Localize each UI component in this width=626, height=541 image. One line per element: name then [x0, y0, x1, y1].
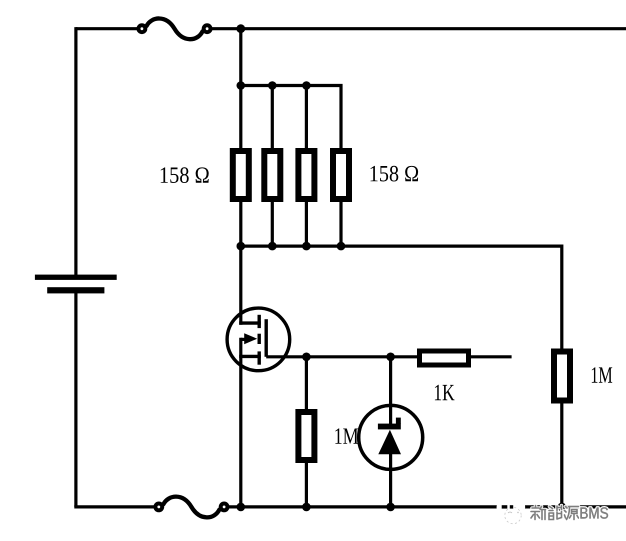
transistor Q1 channel dash bottom	[258, 351, 261, 364]
fuse F1 left terminal	[137, 23, 148, 34]
fuse F1 right terminal	[202, 23, 213, 34]
battery BT1 plate short	[47, 287, 104, 293]
label 1M left	[335, 428, 358, 443]
node bottom wire 4	[558, 503, 567, 512]
node bottom bus 2	[268, 242, 277, 251]
transistor Q1 gate bar	[265, 319, 268, 357]
wire left rail lower	[74, 290, 77, 507]
resistor R7 1M right	[554, 352, 570, 401]
node top	[236, 24, 245, 33]
diode D1 anode triangle	[378, 430, 401, 455]
wire drain vertical	[239, 246, 242, 325]
transistor Q1 body arrow	[244, 333, 257, 344]
watermark text halo	[531, 506, 579, 520]
node bottom bus 4	[337, 242, 346, 251]
wire R3 bottom lead	[305, 199, 308, 246]
wire main vertical upper	[239, 29, 242, 151]
node bottom bus 3	[302, 242, 311, 251]
battery BT1 plate long	[35, 275, 117, 280]
node bottom wire 3	[386, 503, 395, 512]
wire left 1M bottom lead	[305, 461, 308, 507]
wire R1 bottom lead	[239, 199, 242, 246]
diode D1 zener circle	[359, 405, 423, 469]
label 158 ohm right	[371, 166, 419, 182]
wire R2 top lead	[271, 86, 274, 152]
node bottom wire 2	[302, 503, 311, 512]
wire source vertical	[239, 338, 242, 507]
diode D1 cathode bar	[378, 424, 401, 430]
transistor Q1 channel dash top	[258, 315, 261, 328]
watermark CJK glyphs	[531, 506, 579, 520]
wire bottom bus to right rail	[241, 246, 562, 351]
resistor R1	[233, 151, 249, 199]
node top bus 3	[302, 81, 311, 90]
transistor Q1 channel dash middle	[258, 334, 261, 344]
wire top left	[76, 27, 137, 30]
node top bus 2	[268, 81, 277, 90]
node gate rail 2	[386, 353, 395, 362]
fuse F2 right terminal	[219, 502, 230, 513]
wire gate rail	[266, 355, 511, 358]
wire top bus	[241, 86, 341, 152]
wire bottom right	[229, 505, 626, 508]
label 1M right	[592, 367, 612, 382]
wire left 1M top lead	[305, 357, 308, 412]
label 1K	[435, 385, 455, 400]
resistor R3	[298, 151, 314, 199]
node bottom bus 1	[237, 242, 246, 251]
wire zener bottom lead	[389, 452, 392, 507]
node gate rail 1	[302, 353, 311, 362]
watermark logo dove	[495, 497, 525, 525]
transistor Q1 source arm	[239, 355, 261, 358]
node top bus 1	[237, 81, 246, 90]
wire right rail lower	[560, 401, 563, 507]
wire R3 top lead	[305, 86, 308, 152]
resistor R5 1M left	[298, 412, 314, 460]
node bottom wire 1	[237, 503, 246, 512]
watermark BMS text	[581, 507, 609, 518]
diode D1 cathode hook	[396, 418, 401, 424]
wire bottom left	[74, 505, 154, 508]
resistor R6 1K	[420, 351, 469, 365]
wire R2 bottom lead	[271, 199, 274, 246]
resistor R4	[333, 151, 349, 199]
wire zener top lead	[389, 357, 392, 426]
wire R4 bottom lead	[339, 199, 342, 246]
fuse F1 wave	[147, 18, 203, 39]
fuse F2 wave	[163, 497, 219, 518]
fuse F2 left terminal	[153, 502, 164, 513]
transistor Q1 body arm	[241, 338, 246, 341]
transistor Q1 body circle	[227, 308, 290, 371]
transistor Q1 drain arm	[239, 321, 261, 324]
wire top right	[212, 27, 626, 30]
wire left rail upper	[74, 27, 77, 275]
resistor R2	[264, 151, 280, 199]
label 158 ohm left	[161, 167, 209, 183]
